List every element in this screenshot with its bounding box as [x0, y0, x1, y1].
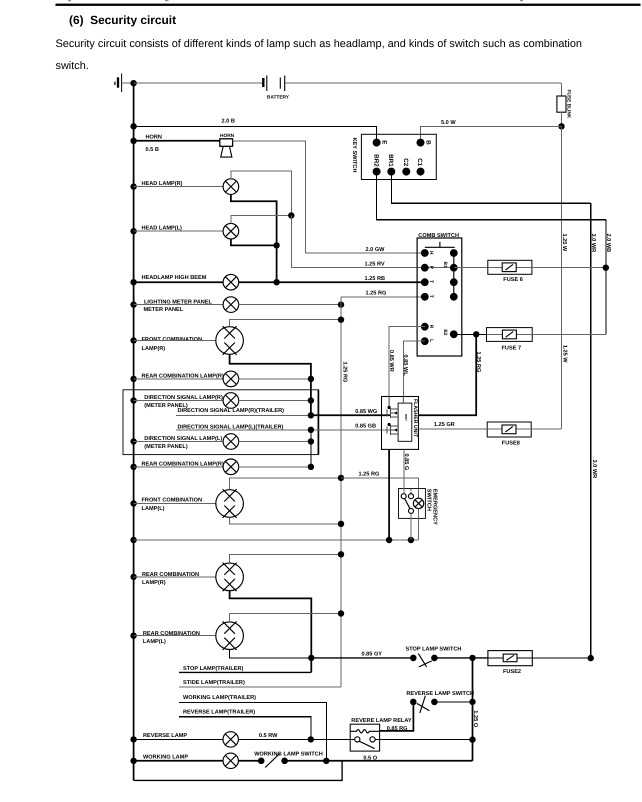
- terminal H: [421, 249, 429, 257]
- wire turn L vertical: [310, 430, 312, 467]
- node stop/1.25 O junction: [469, 655, 475, 661]
- node head lamp L bus junction: [130, 228, 136, 234]
- wire 1.25 RG riser to flasher: [419, 334, 477, 415]
- wire head lamp L bottom riser: [231, 239, 277, 245]
- wire 1.25 W vertical: [561, 126, 563, 429]
- svg-text:REVERSE LAMP SWITCH: REVERSE LAMP SWITCH: [406, 691, 474, 697]
- wire 1.25 RG to emergency lamp: [341, 478, 419, 498]
- svg-text:HORN: HORN: [146, 135, 162, 141]
- wire head lamp R top riser: [231, 171, 291, 215]
- node dir signal L bus junction: [130, 438, 136, 444]
- wire high beam row: [134, 281, 224, 283]
- wire 5.0 W from key switch B: [421, 126, 562, 142]
- wire ground row: [134, 539, 419, 541]
- node turn R junction 1: [308, 376, 314, 382]
- node rear comb L big bus junction: [130, 633, 136, 639]
- svg-text:HEAD LAMP(R): HEAD LAMP(R): [142, 180, 183, 187]
- lamp headlamp high beam: [223, 274, 239, 290]
- wire side lamp trailer row: [179, 686, 341, 688]
- wire working row 0.5 O: [285, 760, 473, 762]
- terminal B1 column: [453, 253, 455, 297]
- terminal L: [421, 337, 429, 345]
- svg-text:(METER PANEL): (METER PANEL): [144, 443, 188, 450]
- wire 1.25 O vertical: [472, 658, 474, 761]
- wire rear comb L big row: [134, 635, 216, 637]
- stop lamp switch: [406, 646, 462, 667]
- svg-text:STOP LAMP SWITCH: STOP LAMP SWITCH: [406, 646, 462, 652]
- wire front comb L row: [134, 503, 216, 505]
- svg-text:FUSE8: FUSE8: [502, 441, 520, 447]
- wire stop switch to fuse2: [434, 657, 488, 659]
- svg-text:1.25 RG: 1.25 RG: [341, 362, 347, 383]
- svg-text:BATTERY: BATTERY: [267, 94, 290, 100]
- terminal BR1: [387, 168, 395, 176]
- svg-text:REVERSE LAMP: REVERSE LAMP: [143, 733, 187, 739]
- node reverse lamp bus junction: [130, 736, 136, 742]
- svg-text:0.85 WG: 0.85 WG: [355, 409, 377, 415]
- wire comb L to flasher 0.85 WL: [403, 341, 424, 396]
- wire lamp bottom: [418, 509, 420, 540]
- wire rear comb L turn to node: [239, 466, 311, 468]
- wire dir signal L row: [134, 441, 224, 443]
- svg-text:1.25 RG: 1.25 RG: [366, 291, 387, 297]
- svg-text:LAMP(L): LAMP(L): [143, 638, 166, 645]
- lamp rear combination R turn: [223, 371, 239, 387]
- wire meter panel to RG bus: [239, 304, 341, 306]
- header cropped text specks: [68, 0, 71, 1]
- node ground row bus junction: [130, 537, 136, 543]
- terminal T2: [421, 293, 429, 301]
- wire reverse lamp row: [134, 738, 224, 740]
- wire front comb L top riser: [230, 478, 341, 490]
- lamp emergency indicator: [413, 498, 423, 508]
- wire front comb R top riser to RG bus: [230, 320, 341, 327]
- relay contact b: [370, 737, 375, 742]
- fuse blink F0: [557, 83, 572, 126]
- svg-text:2.0 B: 2.0 B: [222, 118, 235, 124]
- terminal T1: [421, 278, 429, 286]
- wire 1.25 RG to comb switch row4: [341, 296, 425, 298]
- node working trailer junction: [323, 758, 329, 764]
- svg-text:REVERE LAMP RELAY: REVERE LAMP RELAY: [351, 718, 412, 724]
- svg-text:FUSE BLINK: FUSE BLINK: [565, 90, 571, 119]
- terminal P: [421, 264, 429, 272]
- node front comb R bus junction: [130, 337, 136, 343]
- ground: [115, 74, 134, 93]
- ground bus (left vertical): [133, 83, 135, 780]
- wire horn 0.5 B: [134, 140, 220, 142]
- svg-text:3.0 WR: 3.0 WR: [591, 460, 597, 479]
- node top bus junction: [130, 80, 136, 86]
- svg-text:LAMP(R): LAMP(R): [142, 345, 166, 352]
- wire head lamp R row: [134, 186, 224, 188]
- svg-text:switch.: switch.: [56, 60, 89, 72]
- node high beam bus junction: [130, 279, 136, 285]
- svg-text:STIDE LAMP(TRAILER): STIDE LAMP(TRAILER): [183, 679, 245, 686]
- wire meter panel row: [134, 304, 224, 306]
- node working lamp bus junction: [130, 758, 136, 764]
- svg-text:2.0 WB: 2.0 WB: [605, 234, 611, 253]
- wire stop lamp trailer row: [179, 671, 311, 673]
- wire reverse lamp trailer row: [179, 717, 311, 740]
- node rear comb L bus junction: [130, 464, 136, 470]
- svg-text:FLASHER UNIT: FLASHER UNIT: [412, 399, 418, 438]
- svg-text:T: T: [428, 295, 434, 298]
- svg-text:H: H: [428, 251, 434, 255]
- wire trailer L row 0.85 GB: [176, 429, 391, 431]
- svg-text:0.85 RG: 0.85 RG: [387, 726, 408, 732]
- svg-text:0.5 B: 0.5 B: [146, 147, 159, 153]
- node 3.0 WR end: [588, 655, 594, 661]
- wire flasher ground stub: [388, 449, 390, 540]
- svg-text:DIRECTION SIGNAL LAMP(L)(TRAIL: DIRECTION SIGNAL LAMP(L)(TRAILER): [178, 423, 284, 430]
- wire rear comb R big row: [134, 576, 216, 578]
- svg-text:C2: C2: [402, 158, 409, 166]
- node head lamp R bus junction: [130, 183, 136, 189]
- svg-text:LAMP(R): LAMP(R): [142, 579, 166, 586]
- fuse 2: [488, 651, 532, 676]
- svg-text:(6) Security circuit: (6) Security circuit: [69, 13, 176, 27]
- wire relay output: [375, 738, 472, 740]
- node rear comb R stop bus junction: [130, 574, 136, 580]
- svg-text:1.25 GR: 1.25 GR: [434, 422, 455, 428]
- wire dir signal R to turn node: [239, 400, 311, 402]
- fuse 7: [487, 328, 606, 352]
- wire contact c down: [410, 513, 412, 540]
- svg-text:1.25 O: 1.25 O: [472, 710, 478, 727]
- wire BR2 2.0 WB: [377, 172, 612, 335]
- node fuse blink / 5.0W junction: [558, 123, 564, 129]
- node turn L junction 3: [308, 464, 314, 470]
- lamp head lamp L: [223, 223, 239, 239]
- node relay out / 1.25 O junction: [469, 736, 475, 742]
- node stop junction: [308, 655, 314, 661]
- lamp head lamp R: [223, 179, 239, 195]
- svg-text:HORN: HORN: [220, 133, 235, 139]
- svg-text:1.25 RV: 1.25 RV: [365, 261, 385, 267]
- wire stop row 0.85 GY: [311, 657, 413, 659]
- lamp front combination R (dual): [216, 326, 244, 355]
- relay blade: [359, 741, 375, 748]
- wire dir signal L to turn node: [239, 441, 311, 443]
- svg-text:SWITCH: SWITCH: [426, 489, 432, 511]
- contact c: [409, 508, 414, 513]
- wire 1.25 RB high beam to comb switch: [239, 281, 425, 283]
- fuse 6: [454, 260, 606, 283]
- svg-text:R: R: [428, 325, 434, 329]
- svg-text:HEADLAMP HIGH BEEM: HEADLAMP HIGH BEEM: [142, 275, 207, 281]
- wire rear comb L top riser to RG bus: [230, 614, 341, 622]
- node turn R junction 3: [308, 412, 314, 418]
- svg-text:5.0 W: 5.0 W: [441, 120, 456, 126]
- svg-text:B: B: [424, 140, 431, 145]
- wire rear comb L stop riser: [230, 650, 312, 658]
- switch bar: [425, 246, 455, 248]
- lamp reverse lamp: [223, 732, 238, 747]
- svg-text:DIRECTION SIGNAL LAMP(R)(TRAIL: DIRECTION SIGNAL LAMP(R)(TRAILER): [178, 407, 285, 414]
- contact b dashed: [409, 494, 414, 499]
- node flasher ground junction: [386, 537, 392, 543]
- node headlamp top junction: [288, 212, 294, 218]
- lamp front combination L (dual): [216, 489, 244, 518]
- node RG bus rear comb L junction: [338, 610, 344, 616]
- wire battery feed top: [134, 82, 263, 84]
- wire front comb L bottom riser: [230, 517, 341, 524]
- wire rear comb L turn row: [134, 466, 224, 468]
- svg-text:FUSE 7: FUSE 7: [502, 345, 522, 351]
- terminal B: [417, 139, 425, 147]
- node RG bus meter junction: [338, 301, 344, 307]
- battery: [263, 76, 290, 101]
- wire head lamp L row: [134, 230, 224, 232]
- lamp lighting meter panel: [223, 297, 239, 313]
- wire rear comb R top riser to RG bus: [230, 554, 341, 563]
- svg-text:0.85 GY: 0.85 GY: [362, 652, 383, 658]
- wire rear comb R stop riser: [230, 591, 312, 673]
- wire reverse switch to 1.25 O: [434, 701, 472, 703]
- direction signal group box: [123, 390, 318, 455]
- svg-text:LAMP(L): LAMP(L): [142, 505, 165, 512]
- wire head lamp L top riser: [231, 216, 291, 224]
- wire rear comb R row: [134, 378, 224, 380]
- transistor Q1: [387, 397, 398, 419]
- svg-text:UNIT: UNIT: [404, 414, 408, 421]
- wire lamp to switch: [238, 760, 261, 762]
- wire B2 to fuse 7: [454, 333, 487, 335]
- svg-text:STOP LAMP(TRAILER): STOP LAMP(TRAILER): [183, 665, 244, 672]
- svg-text:Security circuit consists of d: Security circuit consists of different k…: [56, 38, 582, 50]
- node rear comb R bus junction: [130, 376, 136, 382]
- terminal BR2: [373, 168, 381, 176]
- horn: [220, 133, 235, 157]
- reverse lamp relay: [350, 718, 412, 751]
- node horn bus junction: [130, 138, 136, 144]
- terminal B2: [450, 330, 458, 338]
- svg-text:L: L: [428, 339, 434, 342]
- svg-text:BR2: BR2: [372, 154, 379, 167]
- node dir signal R bus junction: [130, 397, 136, 403]
- wire BR1 3.0 WR: [391, 172, 597, 658]
- node reverse row / 1.25 O junction: [469, 699, 475, 705]
- svg-text:FUSE 6: FUSE 6: [503, 277, 523, 283]
- svg-text:C1: C1: [416, 158, 423, 166]
- contact a: [401, 494, 406, 499]
- svg-text:B2: B2: [442, 329, 448, 335]
- node turn R junction 2: [308, 397, 314, 403]
- relay coil: [350, 730, 379, 733]
- node meter panel bus junction: [130, 301, 136, 307]
- svg-text:KEY SWITCH: KEY SWITCH: [351, 138, 357, 173]
- svg-text:0.85 GB: 0.85 GB: [355, 424, 376, 430]
- wire front comb R turn riser: [230, 354, 311, 415]
- wire 1.25 RG bus vertical: [340, 297, 342, 687]
- svg-text:1.25 RG: 1.25 RG: [475, 352, 481, 373]
- node front comb L bus junction: [130, 500, 136, 506]
- wire 0.85 RG to relay coil: [380, 702, 414, 731]
- switch blade: [405, 498, 411, 508]
- terminal R: [421, 323, 429, 331]
- wire horn to comb switch H (2.0 GW): [233, 141, 425, 253]
- wire 2.0 B to key switch E: [134, 126, 377, 142]
- wire bottom return: [134, 761, 343, 781]
- wire rear comb R to turn node: [239, 378, 311, 380]
- wire working lamp trailer row: [179, 703, 326, 761]
- svg-text:0.85 G: 0.85 G: [403, 454, 409, 471]
- wire reverse lamp to relay: [238, 738, 354, 740]
- relay contact a: [355, 737, 360, 742]
- node turn L junction 1: [308, 427, 314, 433]
- page header rule: [56, 4, 641, 6]
- reverse lamp switch: [410, 696, 438, 713]
- svg-text:0.5 RW: 0.5 RW: [259, 733, 278, 739]
- svg-text:WORKING LAMP: WORKING LAMP: [143, 755, 188, 761]
- terminal C1: [417, 168, 425, 176]
- node turn L junction 2: [308, 438, 314, 444]
- svg-text:FRONT COMBINATION: FRONT COMBINATION: [142, 497, 203, 503]
- svg-text:0.85 WL: 0.85 WL: [402, 355, 408, 377]
- node fuse7 / 1.25 RG junction: [473, 331, 479, 337]
- node emergency ground junction: [408, 537, 414, 543]
- wire 0.85 WG to flasher: [311, 414, 391, 416]
- lamp rear combination R (dual): [216, 563, 244, 592]
- svg-text:METER PANEL: METER PANEL: [144, 307, 184, 313]
- node 2.0 B bus junction: [130, 123, 136, 129]
- svg-text:0.85 WR: 0.85 WR: [388, 350, 394, 372]
- terminal E: [373, 139, 381, 147]
- lamp working lamp: [223, 753, 238, 768]
- svg-text:HEAD LAMP(L): HEAD LAMP(L): [142, 225, 183, 232]
- wire working lamp row: [134, 760, 224, 762]
- svg-text:1.25 RB: 1.25 RB: [365, 276, 386, 282]
- node reverse trailer junction: [308, 736, 314, 742]
- node RG bus front comb R junction: [338, 317, 344, 323]
- svg-text:1.25 RG: 1.25 RG: [359, 472, 380, 478]
- wire 1.25 RV to comb switch: [291, 216, 454, 268]
- transistor Q2: [387, 397, 403, 436]
- emergency switch: [399, 489, 438, 541]
- svg-text:B1: B1: [442, 262, 448, 268]
- svg-text:1.25 W: 1.25 W: [561, 234, 567, 252]
- lamp direction signal L: [223, 434, 239, 450]
- wire trailer R row: [176, 414, 311, 416]
- flasher unit: [382, 397, 419, 450]
- svg-text:EMERGENCY: EMERGENCY: [431, 489, 437, 525]
- svg-text:BR1: BR1: [387, 154, 394, 167]
- svg-text:E: E: [381, 140, 388, 144]
- comb switch: [417, 233, 462, 356]
- svg-text:1.25 W: 1.25 W: [561, 345, 567, 363]
- wire fuse2 to 3.0 WR: [532, 657, 590, 659]
- lamp rear combination L turn: [223, 459, 239, 475]
- svg-text:3.0 WR: 3.0 WR: [590, 234, 596, 253]
- svg-text:2.0 GW: 2.0 GW: [366, 247, 386, 253]
- node RG bus 1.25 RG row junction: [338, 475, 344, 481]
- node RG bus rear comb R junction: [338, 551, 344, 557]
- working lamp switch: [254, 752, 323, 768]
- node headlamp bottom junction: [273, 242, 279, 248]
- node fuse6 / 2.0 WB junction: [603, 265, 609, 271]
- lamp direction signal R: [223, 393, 239, 409]
- svg-text:0.5 O: 0.5 O: [363, 756, 377, 762]
- node 1.25 RB / headlamp junction: [273, 279, 279, 285]
- fuse 8: [419, 422, 562, 447]
- wire 0.85 G to emergency switch: [403, 449, 405, 493]
- wire front comb R row: [134, 340, 216, 342]
- key switch: [351, 134, 436, 179]
- wire head lamp R bottom riser: [231, 194, 277, 282]
- svg-text:T: T: [428, 280, 434, 283]
- wire dir signal R row: [134, 400, 224, 402]
- svg-text:FUSE2: FUSE2: [503, 669, 521, 675]
- wire comb R to flasher 0.85 WR: [389, 327, 425, 397]
- svg-text:WORKING LAMP SWITCH: WORKING LAMP SWITCH: [254, 752, 323, 758]
- node RG bus front comb L bottom junction: [338, 521, 344, 527]
- svg-text:REVERSE LAMP(TRAILER): REVERSE LAMP(TRAILER): [183, 708, 255, 715]
- terminal C2: [402, 168, 410, 176]
- svg-text:WORKING LAMP(TRAILER): WORKING LAMP(TRAILER): [183, 694, 256, 701]
- lamp rear combination L (dual): [216, 621, 244, 650]
